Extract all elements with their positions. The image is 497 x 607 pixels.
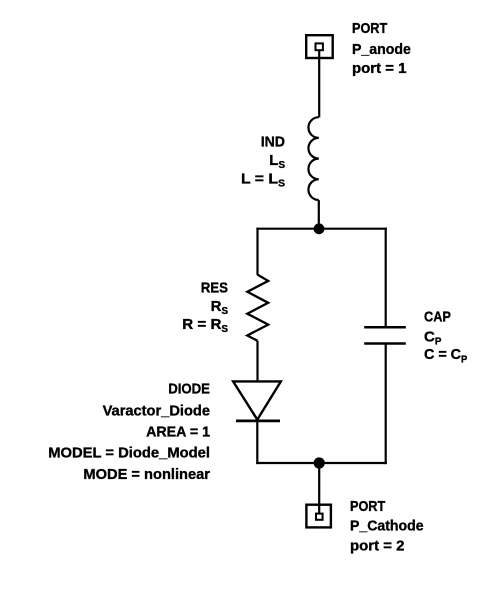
svg-text:RS: RS (211, 298, 229, 317)
wire: diode to bottom corner (256, 420, 258, 465)
diode D1 (Varactor_Diode) triangle (233, 381, 281, 419)
capacitor CP bottom plate (364, 342, 406, 345)
wire: resistor to diode (256, 341, 258, 383)
inductor LS coil (4 arcs) (308, 117, 318, 200)
capacitor CP top plate (364, 326, 406, 329)
svg-text:port = 1: port = 1 (352, 60, 407, 77)
port P2 inner pin square (316, 514, 323, 520)
wire: node 2 down to port P2 pin (318, 463, 320, 514)
svg-text:P_anode: P_anode (352, 41, 411, 58)
node 1 junction dot (314, 223, 325, 234)
wire: right branch from node 1 to capacitor (385, 228, 387, 327)
svg-text:P_Cathode: P_Cathode (350, 518, 424, 535)
node 2 junction dot (314, 457, 325, 468)
svg-text:R = RS: R = RS (182, 316, 228, 335)
wire: port P1 pin to inductor (318, 50, 320, 117)
wire: bottom horizontal (256, 462, 387, 464)
svg-text:RES: RES (201, 280, 228, 297)
svg-text:Varactor_Diode: Varactor_Diode (103, 402, 210, 419)
svg-text:C = CP: C = CP (424, 346, 468, 365)
svg-text:MODE = nonlinear: MODE = nonlinear (83, 466, 210, 483)
svg-text:DIODE: DIODE (168, 380, 210, 397)
resistor RS zigzag (247, 275, 268, 341)
svg-text:MODEL = Diode_Model: MODEL = Diode_Model (48, 445, 210, 462)
port P1 (P_anode) outer box (306, 35, 333, 58)
port P2 (P_Cathode) outer box (306, 505, 331, 528)
diode cathode bar (236, 419, 280, 422)
svg-text:PORT: PORT (352, 20, 387, 37)
svg-text:CP: CP (424, 329, 442, 348)
svg-text:IND: IND (261, 133, 285, 150)
wire: inductor to node 1 (318, 200, 320, 229)
port P1 inner pin square (316, 43, 323, 50)
wire: capacitor to bottom horizontal (385, 344, 387, 465)
svg-text:port = 2: port = 2 (350, 538, 405, 555)
wire: top horizontal from left branch to right branch (256, 228, 386, 230)
wire: left branch down to resistor (256, 228, 258, 275)
svg-text:L = LS: L = LS (241, 171, 285, 190)
svg-text:CAP: CAP (424, 309, 451, 326)
svg-text:AREA = 1: AREA = 1 (146, 423, 210, 440)
svg-text:LS: LS (269, 152, 285, 171)
svg-text:PORT: PORT (350, 498, 385, 515)
